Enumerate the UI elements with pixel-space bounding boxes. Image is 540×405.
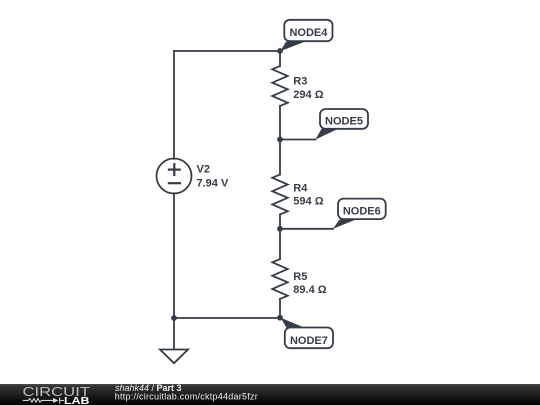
svg-text:V2: V2 xyxy=(197,163,210,175)
svg-text:LAB: LAB xyxy=(64,395,90,405)
svg-text:594 Ω: 594 Ω xyxy=(293,196,323,208)
svg-text:89.4 Ω: 89.4 Ω xyxy=(293,284,326,296)
svg-text:R4: R4 xyxy=(293,183,308,195)
svg-text:http://circuitlab.com/cktp44da: http://circuitlab.com/cktp44dar5fzr xyxy=(115,392,258,402)
svg-text:R3: R3 xyxy=(293,76,307,88)
svg-text:7.94 V: 7.94 V xyxy=(197,177,229,189)
svg-text:NODE6: NODE6 xyxy=(343,206,381,218)
svg-text:R5: R5 xyxy=(293,271,307,283)
svg-text:NODE4: NODE4 xyxy=(289,27,328,39)
svg-text:NODE7: NODE7 xyxy=(290,335,328,347)
svg-text:NODE5: NODE5 xyxy=(325,115,363,127)
svg-text:294 Ω: 294 Ω xyxy=(293,89,323,101)
